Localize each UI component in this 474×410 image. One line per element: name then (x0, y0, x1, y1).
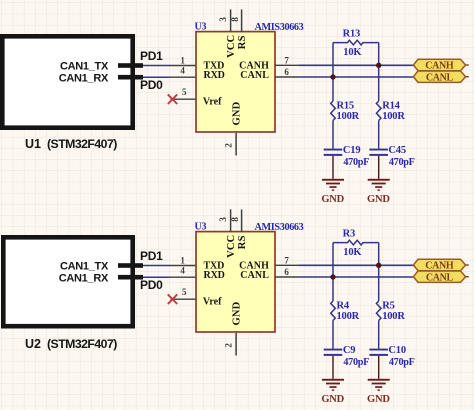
svg-text:CANL: CANL (426, 272, 454, 283)
pin 8 RS (241, 209, 243, 231)
port CANH (413, 259, 465, 270)
svg-text:CAN1_TX: CAN1_TX (60, 260, 109, 272)
svg-text:CANH: CANH (425, 261, 454, 272)
svg-text:1: 1 (180, 256, 185, 266)
svg-text:470pF: 470pF (343, 357, 369, 368)
capacitor C10 470pF (369, 349, 388, 351)
resistor R15 100R (331, 101, 336, 121)
svg-text:GND: GND (367, 394, 390, 405)
svg-text:RS: RS (237, 235, 248, 249)
resistor R13 10K (horizontal) (333, 40, 379, 45)
capacitor C19 470pF (324, 149, 343, 151)
svg-text:5: 5 (182, 87, 187, 97)
svg-text:10K: 10K (343, 247, 362, 258)
pin stub CAN1_TX (118, 63, 143, 68)
pin 2 GND (235, 333, 237, 356)
wire R to C right (378, 321, 380, 349)
port stub CANL (466, 276, 469, 278)
svg-text:PD0: PD0 (140, 78, 163, 92)
wire CANH net (298, 264, 413, 266)
svg-text:3: 3 (219, 217, 229, 222)
pin stub CAN1_RX (118, 75, 143, 80)
svg-text:R4: R4 (337, 300, 350, 311)
wire right branch vertical (378, 43, 380, 101)
pin 5 Vref (171, 98, 197, 100)
wire RXD (143, 76, 170, 78)
svg-text:VCC: VCC (226, 235, 237, 258)
resistor R4 100R (331, 301, 336, 320)
svg-text:CANH: CANH (425, 61, 454, 72)
svg-text:R3: R3 (343, 229, 355, 240)
svg-text:RXD: RXD (204, 70, 225, 81)
svg-text:PD0: PD0 (140, 278, 163, 292)
svg-text:U1: U1 (25, 137, 41, 151)
port stub CANH (466, 264, 469, 266)
wire R to C left (332, 321, 334, 349)
svg-text:C10: C10 (388, 345, 405, 356)
svg-text:(STM32F407): (STM32F407) (47, 337, 117, 351)
junction node on CANH (376, 63, 381, 68)
svg-text:GND: GND (232, 301, 243, 325)
pin 3 VCC (230, 9, 232, 31)
svg-text:C9: C9 (343, 345, 355, 356)
svg-text:470pF: 470pF (389, 157, 415, 168)
pin 4 RXD (170, 276, 197, 278)
port CANL (413, 271, 465, 282)
wire right branch vertical (378, 243, 380, 301)
svg-text:AMIS30663: AMIS30663 (255, 222, 304, 233)
svg-text:8: 8 (231, 217, 241, 222)
pin 5 Vref (171, 298, 197, 300)
svg-text:U2: U2 (25, 337, 41, 351)
junction node on CANL (330, 74, 335, 79)
junction node on CANL (330, 274, 335, 279)
svg-text:GND: GND (367, 194, 390, 205)
svg-text:CANL: CANL (426, 72, 454, 83)
wire TXD (143, 265, 170, 267)
svg-text:2: 2 (225, 143, 235, 148)
svg-text:R13: R13 (343, 29, 360, 40)
svg-text:CANL: CANL (240, 70, 269, 81)
svg-text:GND: GND (232, 101, 243, 125)
svg-text:R15: R15 (337, 100, 354, 111)
ground right (378, 156, 380, 179)
svg-text:8: 8 (231, 17, 241, 22)
pin 1 TXD (170, 65, 197, 67)
svg-text:100R: 100R (337, 311, 360, 322)
port stub CANL (466, 76, 469, 78)
wire CANL net (298, 76, 413, 78)
svg-text:CAN1_TX: CAN1_TX (60, 60, 109, 72)
svg-text:1: 1 (180, 56, 185, 66)
svg-text:6: 6 (284, 267, 289, 277)
ground left (332, 156, 334, 179)
svg-text:C45: C45 (388, 145, 405, 156)
pin 4 RXD (170, 76, 197, 78)
svg-text:470pF: 470pF (343, 157, 369, 168)
svg-text:10K: 10K (343, 47, 362, 58)
wire TXD (143, 65, 170, 67)
svg-text:4: 4 (180, 265, 185, 275)
no-connect X on Vref (168, 94, 177, 104)
wire CANH net (298, 64, 413, 66)
svg-text:3: 3 (219, 17, 229, 22)
op-amp/transceiver U3 AMIS30663 body (196, 232, 275, 332)
svg-text:U3: U3 (195, 22, 207, 33)
pin 3 VCC (230, 209, 232, 231)
svg-text:7: 7 (284, 56, 289, 66)
svg-text:U3: U3 (195, 222, 207, 233)
svg-text:PD1: PD1 (140, 249, 163, 263)
svg-text:R14: R14 (382, 100, 400, 111)
wire CANL net (298, 276, 413, 278)
pin 6 CANL (275, 276, 298, 278)
pin stub CAN1_RX (118, 275, 143, 280)
resistor R5 100R (376, 301, 381, 320)
svg-text:AMIS30663: AMIS30663 (255, 22, 304, 33)
wire R to C left (332, 121, 334, 149)
svg-text:100R: 100R (382, 311, 405, 322)
pin 8 RS (241, 9, 243, 31)
svg-text:CAN1_RX: CAN1_RX (59, 72, 109, 84)
pin 7 CANH (275, 264, 298, 266)
pin 7 CANH (275, 64, 298, 66)
wire left branch vertical (332, 243, 334, 301)
capacitor C45 470pF (369, 149, 388, 151)
svg-text:470pF: 470pF (389, 357, 415, 368)
svg-text:7: 7 (284, 256, 289, 266)
svg-text:GND: GND (321, 394, 344, 405)
junction node on CANH (376, 263, 381, 268)
svg-text:RS: RS (237, 35, 248, 49)
block U1 (STM32F407) (2, 36, 132, 127)
svg-text:CANL: CANL (240, 270, 269, 281)
op-amp/transceiver U3 AMIS30663 body (196, 32, 275, 132)
pin stub CAN1_TX (118, 263, 143, 268)
capacitor C9 470pF (324, 349, 343, 351)
port CANL (413, 71, 465, 82)
pin 6 CANL (275, 76, 298, 78)
svg-text:5: 5 (182, 287, 187, 297)
wire RXD (143, 276, 170, 278)
svg-text:Vref: Vref (203, 296, 222, 307)
svg-text:GND: GND (321, 194, 344, 205)
pin 2 GND (235, 133, 237, 156)
svg-text:2: 2 (225, 343, 235, 348)
ground left (332, 356, 334, 379)
svg-text:(STM32F407): (STM32F407) (47, 137, 117, 151)
pin 1 TXD (170, 265, 197, 267)
svg-text:CAN1_RX: CAN1_RX (59, 272, 109, 284)
ground right (378, 356, 380, 379)
svg-text:6: 6 (284, 67, 289, 77)
svg-text:100R: 100R (382, 111, 405, 122)
svg-text:VCC: VCC (226, 35, 237, 58)
block U2 (STM32F407) (3, 237, 132, 326)
svg-text:Vref: Vref (203, 96, 222, 107)
wire R to C right (378, 121, 380, 149)
port CANH (413, 59, 465, 70)
wire left branch vertical (332, 43, 334, 101)
svg-text:C19: C19 (343, 145, 360, 156)
svg-text:PD1: PD1 (140, 49, 163, 63)
resistor R3 10K (horizontal) (333, 240, 379, 245)
no-connect X on Vref (168, 294, 177, 304)
svg-text:4: 4 (180, 65, 185, 75)
svg-text:100R: 100R (337, 111, 360, 122)
resistor R14 100R (376, 101, 381, 121)
svg-text:RXD: RXD (204, 270, 225, 281)
port stub CANH (466, 64, 469, 66)
svg-text:R5: R5 (382, 300, 394, 311)
